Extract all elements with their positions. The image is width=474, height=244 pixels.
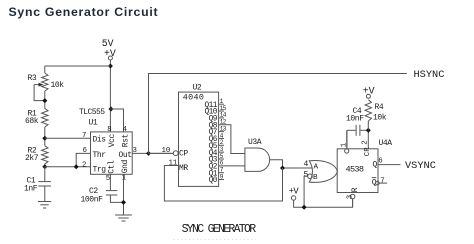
svg-text:......................: ......................	[172, 235, 258, 242]
svg-text:+V: +V	[289, 187, 300, 197]
svg-text:Q: Q	[373, 161, 378, 170]
svg-text:HSYNC: HSYNC	[414, 69, 445, 81]
svg-text:4538: 4538	[346, 165, 364, 175]
svg-text:7: 7	[380, 178, 384, 186]
svg-text:2: 2	[362, 140, 370, 144]
svg-text:10: 10	[162, 147, 171, 155]
svg-text:4: 4	[304, 160, 309, 169]
svg-text:Gnd: Gnd	[121, 159, 130, 173]
svg-text:CP: CP	[179, 150, 188, 159]
svg-text:U1: U1	[89, 118, 98, 127]
svg-text:R: R	[351, 187, 360, 192]
svg-text:Ctl: Ctl	[108, 160, 117, 174]
svg-text:MR: MR	[179, 164, 188, 173]
svg-text:CR: CR	[364, 147, 372, 156]
svg-text:10k: 10k	[51, 81, 65, 90]
svg-text:VSYNC: VSYNC	[405, 160, 436, 172]
svg-text:6: 6	[83, 147, 87, 155]
svg-text:U4A: U4A	[379, 139, 393, 148]
svg-text:R4: R4	[375, 103, 384, 112]
svg-text:+V: +V	[104, 48, 116, 59]
svg-text:TLC555: TLC555	[79, 108, 105, 117]
svg-text:100nF: 100nF	[81, 196, 104, 205]
svg-text:+V: +V	[363, 86, 375, 97]
svg-text:7: 7	[82, 132, 86, 140]
svg-text:B: B	[313, 174, 318, 182]
svg-text:Vcc: Vcc	[108, 133, 117, 147]
svg-text:68k: 68k	[25, 117, 39, 126]
svg-text:4: 4	[123, 126, 128, 134]
svg-text:3: 3	[346, 195, 354, 199]
svg-text:Rst: Rst	[121, 134, 130, 147]
svg-text:R3: R3	[28, 74, 37, 83]
svg-text:10k: 10k	[373, 114, 387, 123]
svg-text:1: 1	[122, 174, 127, 182]
svg-text:U3A: U3A	[248, 138, 262, 147]
svg-text:A: A	[314, 164, 319, 172]
svg-text:Dis: Dis	[93, 136, 107, 145]
svg-text:5: 5	[106, 175, 110, 183]
svg-text:2: 2	[82, 162, 86, 170]
svg-text:U2: U2	[193, 84, 202, 93]
svg-text:Q0: Q0	[209, 177, 218, 185]
svg-text:4040: 4040	[183, 93, 205, 103]
svg-text:1nF: 1nF	[24, 185, 38, 194]
svg-text:Out: Out	[119, 151, 132, 160]
svg-text:10nF: 10nF	[346, 115, 364, 124]
svg-text:Trg: Trg	[93, 166, 107, 175]
svg-text:11: 11	[169, 160, 178, 168]
svg-text:Thr: Thr	[93, 151, 107, 160]
svg-text:8: 8	[107, 126, 111, 134]
svg-text:2k7: 2k7	[25, 154, 39, 163]
svg-text:3: 3	[133, 147, 137, 155]
